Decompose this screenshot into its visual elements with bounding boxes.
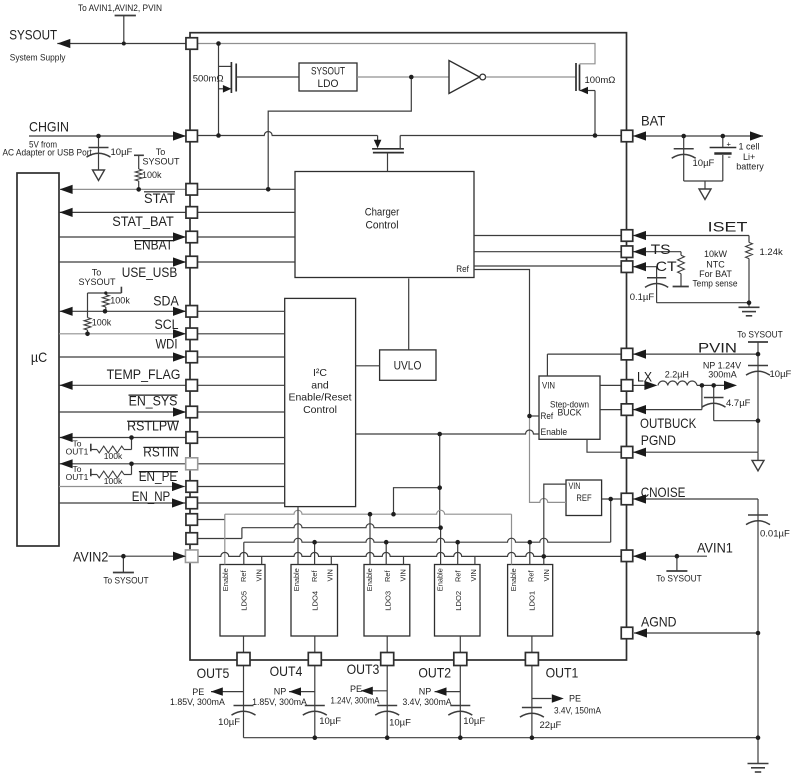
svg-text:PGND: PGND <box>641 432 676 448</box>
svg-text:1.24k: 1.24k <box>760 247 783 258</box>
svg-text:4.7µF: 4.7µF <box>726 398 751 409</box>
svg-text:WDI: WDI <box>156 337 178 352</box>
svg-text:OUT1: OUT1 <box>546 665 579 681</box>
svg-text:CNOISE: CNOISE <box>641 484 686 500</box>
svg-text:Enable: Enable <box>541 427 568 438</box>
svg-text:To SYSOUT: To SYSOUT <box>656 574 702 584</box>
svg-text:Enable: Enable <box>509 568 518 591</box>
svg-text:Enable: Enable <box>292 568 301 591</box>
svg-text:Enable: Enable <box>365 568 374 591</box>
svg-text:OUT3: OUT3 <box>347 661 380 677</box>
svg-text:Temp sense: Temp sense <box>693 279 738 289</box>
svg-text:VIN: VIN <box>469 569 478 581</box>
svg-text:BAT: BAT <box>641 113 666 129</box>
svg-text:100k: 100k <box>104 476 123 486</box>
svg-text:REF: REF <box>576 493 591 504</box>
svg-text:LDO3: LDO3 <box>384 591 393 611</box>
svg-text:AC Adapter or USB Port: AC Adapter or USB Port <box>3 148 93 158</box>
svg-text:100k: 100k <box>92 318 112 328</box>
svg-text:LDO5: LDO5 <box>240 591 249 611</box>
svg-text:AGND: AGND <box>641 614 677 630</box>
svg-text:OUT1: OUT1 <box>66 472 89 482</box>
svg-text:3.4V, 150mA: 3.4V, 150mA <box>554 706 601 716</box>
svg-text:10µF: 10µF <box>693 158 715 169</box>
svg-text:VIN: VIN <box>569 481 581 492</box>
svg-text:VIN: VIN <box>326 569 335 581</box>
svg-text:PE: PE <box>569 694 581 704</box>
svg-text:To SYSOUT: To SYSOUT <box>737 330 783 340</box>
svg-text:SDA: SDA <box>153 294 179 309</box>
svg-text:battery: battery <box>736 162 764 172</box>
svg-text:To AVIN1,AVIN2, PVIN: To AVIN1,AVIN2, PVIN <box>78 3 162 14</box>
svg-text:USE_USB: USE_USB <box>122 265 178 280</box>
svg-text:SYSOUT: SYSOUT <box>78 277 116 287</box>
svg-text:Li+: Li+ <box>743 152 755 162</box>
svg-text:CT: CT <box>656 258 677 274</box>
svg-text:STAT: STAT <box>144 191 175 206</box>
svg-text:-: - <box>728 152 731 163</box>
svg-text:LDO: LDO <box>318 78 339 90</box>
svg-text:SYSOUT: SYSOUT <box>311 66 345 78</box>
svg-text:Ref: Ref <box>239 570 248 582</box>
svg-text:UVLO: UVLO <box>394 361 422 373</box>
svg-text:RSTLPW: RSTLPW <box>127 419 179 434</box>
svg-text:System Supply: System Supply <box>10 53 66 64</box>
svg-text:Enable/Reset: Enable/Reset <box>288 392 351 404</box>
svg-text:1.24V, 300mA: 1.24V, 300mA <box>331 696 380 706</box>
svg-text:SYSOUT: SYSOUT <box>9 26 57 42</box>
svg-text:To SYSOUT: To SYSOUT <box>103 576 149 586</box>
svg-text:LDO1: LDO1 <box>527 591 536 611</box>
svg-text:For BAT: For BAT <box>699 269 732 279</box>
svg-text:10µF: 10µF <box>218 717 240 728</box>
svg-text:100mΩ: 100mΩ <box>585 75 616 86</box>
svg-text:500mΩ: 500mΩ <box>193 74 224 85</box>
svg-text:RSTIN: RSTIN <box>143 445 178 460</box>
svg-text:Control: Control <box>303 404 337 416</box>
svg-text:1.85V, 300mA: 1.85V, 300mA <box>170 697 225 707</box>
svg-text:100k: 100k <box>104 451 123 461</box>
svg-text:EN_PE: EN_PE <box>139 469 178 484</box>
svg-text:Charger: Charger <box>365 207 400 219</box>
svg-text:OUTBUCK: OUTBUCK <box>640 415 697 431</box>
svg-text:To: To <box>92 267 102 277</box>
svg-text:Ref: Ref <box>541 411 554 422</box>
svg-text:BUCK: BUCK <box>558 408 583 419</box>
svg-text:TS: TS <box>651 241 671 257</box>
svg-text:OUT1: OUT1 <box>66 447 89 457</box>
svg-text:+: + <box>727 140 732 149</box>
svg-text:10µF: 10µF <box>111 147 133 158</box>
svg-text:CHGIN: CHGIN <box>29 119 69 135</box>
svg-text:SYSOUT: SYSOUT <box>142 156 180 166</box>
svg-text:0.1µF: 0.1µF <box>630 292 655 303</box>
svg-text:10µF: 10µF <box>770 369 792 380</box>
svg-text:EN_SYS: EN_SYS <box>129 394 178 409</box>
svg-text:VIN: VIN <box>542 381 555 392</box>
svg-text:NP: NP <box>419 687 432 697</box>
svg-text:1.85V, 300mA: 1.85V, 300mA <box>252 697 307 707</box>
svg-text:10µF: 10µF <box>463 716 485 727</box>
svg-text:OUT2: OUT2 <box>418 665 451 681</box>
svg-text:3.4V, 300mA: 3.4V, 300mA <box>403 697 452 707</box>
svg-text:Enable: Enable <box>221 568 230 591</box>
svg-text:NTC: NTC <box>706 260 725 270</box>
svg-text:Ref: Ref <box>310 570 319 582</box>
svg-text:OUT5: OUT5 <box>197 665 230 681</box>
svg-text:and: and <box>311 379 329 391</box>
svg-text:STAT_BAT: STAT_BAT <box>112 214 174 229</box>
svg-text:PVIN: PVIN <box>698 340 737 356</box>
svg-text:Ref: Ref <box>526 570 535 582</box>
svg-text:0.01µF: 0.01µF <box>760 529 790 540</box>
svg-text:1 cell: 1 cell <box>739 142 760 152</box>
svg-text:100k: 100k <box>142 170 162 180</box>
svg-text:SCL: SCL <box>155 317 179 332</box>
svg-text:I²C: I²C <box>313 367 327 379</box>
svg-text:Ref: Ref <box>453 570 462 582</box>
svg-text:300mA: 300mA <box>708 370 737 380</box>
svg-text:VIN: VIN <box>255 569 264 581</box>
svg-text:100k: 100k <box>110 296 130 306</box>
svg-text:µC: µC <box>31 349 47 365</box>
svg-text:EN_NP: EN_NP <box>132 489 171 504</box>
svg-text:LDO4: LDO4 <box>311 591 320 611</box>
svg-text:AVIN1: AVIN1 <box>697 540 733 556</box>
svg-text:10µF: 10µF <box>319 716 341 727</box>
svg-text:Ref: Ref <box>456 264 469 275</box>
svg-text:NP: NP <box>274 687 287 697</box>
svg-text:AVIN2: AVIN2 <box>73 549 108 565</box>
svg-text:TEMP_FLAG: TEMP_FLAG <box>107 367 181 382</box>
svg-text:Enable: Enable <box>436 568 445 591</box>
svg-text:OUT4: OUT4 <box>270 663 303 679</box>
svg-text:VIN: VIN <box>399 569 408 581</box>
svg-text:10kW: 10kW <box>704 249 728 259</box>
svg-text:LDO2: LDO2 <box>454 591 463 611</box>
svg-text:VIN: VIN <box>542 569 551 581</box>
svg-text:ISET: ISET <box>708 219 748 235</box>
svg-text:ENBAT: ENBAT <box>134 238 173 253</box>
svg-text:PE: PE <box>350 684 362 694</box>
svg-text:Ref: Ref <box>383 570 392 582</box>
svg-text:Control: Control <box>366 220 399 232</box>
svg-text:PE: PE <box>192 687 204 697</box>
svg-text:2.2µH: 2.2µH <box>665 370 689 380</box>
svg-text:10µF: 10µF <box>389 718 411 729</box>
svg-text:22µF: 22µF <box>540 720 562 731</box>
